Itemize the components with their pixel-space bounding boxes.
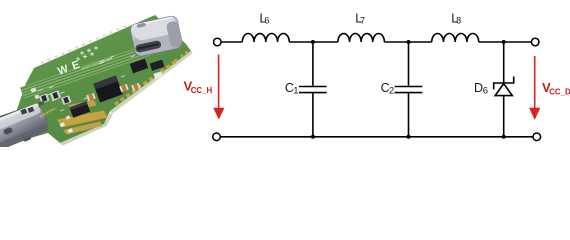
diode D6 triangle: [495, 84, 512, 96]
label C2: [381, 81, 395, 97]
terminal top-right: [531, 38, 539, 46]
PCB photo: silkscreen cross pattern: [76, 46, 98, 61]
PCB photo: traces: [21, 46, 150, 97]
label VCC_D: [542, 80, 570, 96]
svg-text:6: 6: [264, 16, 269, 26]
label C1: [285, 81, 299, 97]
PCB photo: black chip E: [150, 60, 165, 71]
arrow VCC_D: [529, 56, 540, 120]
PCB photo: black chip B: [130, 59, 148, 74]
svg-text:D: D: [474, 81, 483, 95]
PCB photo: tan capacitor 3: [131, 83, 141, 91]
PCB photo: white pads in gold jut: [60, 115, 73, 133]
PCB photo: pads row along far edge: [41, 26, 128, 64]
svg-text:7: 7: [360, 16, 365, 26]
wire top rail: L6 to L7: [289, 41, 338, 43]
PCB photo: tiny silkscreen labels near chips: [38, 86, 65, 93]
capacitor C2 bottom lead: [408, 93, 410, 136]
diode D6 cathode lead: [503, 42, 505, 83]
wire bottom rail: [220, 136, 533, 138]
svg-text:8: 8: [456, 16, 461, 26]
PCB photo: tiny C2 L8 labels: [100, 56, 115, 62]
PCB photo: tan capacitor 1: [86, 93, 96, 101]
PCB photo: white capacitor 3: [153, 71, 162, 79]
svg-text:CC_D: CC_D: [549, 87, 570, 96]
label L7: [355, 11, 365, 25]
PCB photo: tiny silkscreen marks: [47, 56, 135, 112]
label D6: [474, 81, 488, 97]
PCB photo: board lower-left edge thickness: [60, 113, 113, 146]
capacitor C1 plates: [299, 86, 327, 88]
capacitor C1 bottom lead: [312, 93, 314, 136]
inductor L8: [432, 34, 479, 43]
junction top C2: [407, 40, 411, 44]
label L6: [260, 11, 270, 25]
PCB photo: USB-C receptacle at board nose: [129, 15, 183, 57]
terminal top-left: [214, 38, 222, 46]
diode D6 anode lead: [503, 96, 505, 137]
svg-text:CC_H: CC_H: [191, 86, 213, 95]
wire top rail: terminal to L6: [221, 41, 242, 43]
capacitor C2 top lead: [408, 42, 410, 86]
svg-text:1: 1: [293, 85, 298, 96]
PCB photo: USB-C plug at board tail: [0, 102, 51, 156]
label VCC_H: [184, 78, 213, 94]
PCB photo: WE logo: [56, 49, 109, 79]
capacitor C2 plates: [395, 86, 423, 88]
junction bottom D6: [502, 135, 506, 139]
junction top C1: [311, 40, 315, 44]
PCB photo: gold pads along near edge: [115, 61, 176, 105]
PCB photo: black chip A: [69, 101, 90, 117]
PCB photo: gold dots near nose: [175, 51, 188, 61]
label L8: [451, 11, 461, 25]
terminal bottom-right: [533, 133, 541, 141]
PCB photo: gold jut area right of plug: [57, 111, 108, 128]
PCB photo: board near edge thickness: [110, 51, 193, 114]
PCB photo: tan capacitor 2: [119, 84, 129, 92]
PCB photo: gold contact teeth at plug seam: [40, 109, 55, 118]
svg-text:2: 2: [389, 85, 394, 96]
capacitor C1 top lead: [312, 42, 314, 86]
junction top D6: [502, 40, 506, 44]
junction bottom C1: [311, 135, 315, 139]
PCB photo: white bits left end: [30, 87, 36, 92]
PCB photo: three small inductor chips near plug: [39, 93, 50, 103]
PCB photo: light silkscreen panel: [20, 44, 150, 98]
diode D6 zener bar: [494, 77, 514, 90]
junction bottom C2: [407, 135, 411, 139]
inductor L7: [338, 34, 384, 43]
PCB photo: board top face: [0, 15, 191, 147]
PCB photo: big black cube component: [93, 75, 122, 102]
PCB photo: shadow above plug: [0, 101, 44, 122]
inductor L6: [242, 34, 289, 43]
wire top rail: L8 to terminal: [479, 41, 532, 43]
arrow VCC_H: [213, 55, 224, 120]
terminal bottom-left: [213, 133, 221, 141]
svg-text:6: 6: [483, 85, 488, 96]
wire top rail: L7 to L8: [384, 41, 431, 43]
